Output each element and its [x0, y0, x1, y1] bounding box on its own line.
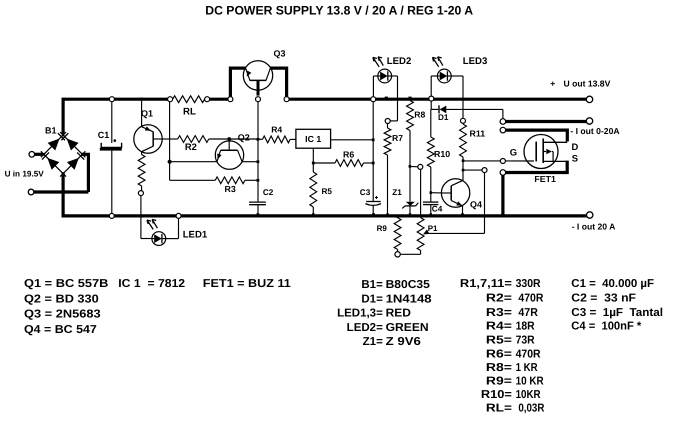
- svg-text:C1: C1: [98, 130, 110, 140]
- svg-text:- I out 20 A: - I out 20 A: [572, 222, 616, 232]
- svg-text:Q1 = BC 557B: Q1 = BC 557B: [24, 278, 108, 290]
- svg-text:C1 = 40.000 µF: C1 = 40.000 µF: [571, 278, 654, 290]
- svg-text:Q4: Q4: [470, 200, 482, 210]
- svg-text:R4: R4: [271, 124, 282, 134]
- svg-text:B1: B1: [45, 126, 57, 136]
- svg-text:73R: 73R: [516, 335, 536, 347]
- svg-text:Q1: Q1: [141, 109, 153, 119]
- svg-text:R10: R10: [434, 149, 450, 159]
- svg-text:DC POWER SUPPLY 13.8 V / 20 A: DC POWER SUPPLY 13.8 V / 20 A / REG 1-20…: [205, 4, 473, 18]
- svg-text:R2: R2: [185, 141, 197, 152]
- svg-text:R11: R11: [470, 129, 486, 139]
- svg-text:B1=: B1=: [361, 279, 383, 291]
- svg-text:Q3: Q3: [274, 48, 286, 58]
- svg-text:R6=: R6=: [486, 348, 512, 360]
- svg-text:+: +: [550, 78, 555, 88]
- svg-text:1N4148: 1N4148: [386, 293, 433, 305]
- svg-text:C3 = 1µF Tantal: C3 = 1µF Tantal: [571, 307, 663, 319]
- svg-text:R7: R7: [392, 133, 403, 143]
- svg-text:R6: R6: [343, 150, 354, 160]
- svg-text:FET1: FET1: [534, 174, 556, 184]
- svg-text:G: G: [510, 147, 517, 158]
- svg-text:IC 1: IC 1: [305, 134, 321, 144]
- svg-text:RED: RED: [386, 308, 411, 320]
- svg-text:U in 19.5V: U in 19.5V: [5, 170, 45, 179]
- svg-text:C2 = 33 nF: C2 = 33 nF: [571, 293, 636, 305]
- svg-text:S: S: [572, 153, 578, 164]
- svg-text:C2: C2: [263, 188, 274, 197]
- svg-text:LED2: LED2: [387, 56, 412, 67]
- svg-text:- I out 0-20A: - I out 0-20A: [570, 126, 619, 136]
- svg-text:470R: 470R: [518, 293, 544, 305]
- svg-text:RL=: RL=: [486, 403, 512, 415]
- svg-text:IC 1 = 7812: IC 1 = 7812: [118, 278, 185, 290]
- svg-text:Q3 = 2N5683: Q3 = 2N5683: [24, 309, 101, 321]
- svg-text:R1,7,11=: R1,7,11=: [460, 278, 512, 290]
- svg-text:U out 13.8V: U out 13.8V: [564, 78, 611, 88]
- svg-text:10KR: 10KR: [516, 389, 542, 401]
- svg-text:Z1=: Z1=: [363, 336, 383, 348]
- svg-text:R9: R9: [377, 224, 388, 233]
- svg-text:0,03R: 0,03R: [518, 403, 545, 415]
- svg-text:Q4 = BC 547: Q4 = BC 547: [24, 324, 97, 336]
- svg-text:R4=: R4=: [486, 321, 512, 333]
- svg-text:B80C35: B80C35: [386, 279, 431, 291]
- svg-text:Z 9V6: Z 9V6: [386, 336, 421, 348]
- svg-text:R10=: R10=: [481, 389, 512, 401]
- svg-text:C4 = 100nF *: C4 = 100nF *: [571, 321, 641, 333]
- svg-text:330R: 330R: [516, 278, 542, 290]
- svg-text:D1=: D1=: [361, 293, 383, 305]
- svg-text:Q2 = BD 330: Q2 = BD 330: [24, 293, 99, 305]
- svg-text:R8=: R8=: [486, 362, 512, 374]
- svg-text:Z1: Z1: [392, 188, 402, 197]
- svg-text:LED1,3=: LED1,3=: [337, 308, 383, 320]
- svg-text:R3=: R3=: [486, 307, 512, 319]
- svg-text:470R: 470R: [516, 348, 542, 360]
- svg-text:LED2=: LED2=: [347, 322, 383, 334]
- svg-text:LED3: LED3: [463, 56, 488, 67]
- svg-text:RL: RL: [183, 107, 196, 118]
- svg-text:47R: 47R: [518, 307, 538, 319]
- svg-text:C4: C4: [432, 205, 443, 214]
- svg-text:D1: D1: [438, 113, 449, 122]
- svg-text:R9=: R9=: [486, 375, 512, 387]
- svg-text:10 KR: 10 KR: [516, 375, 545, 387]
- svg-text:R2=: R2=: [486, 293, 512, 305]
- svg-text:Q2: Q2: [238, 132, 250, 142]
- svg-text:C3: C3: [360, 188, 371, 197]
- svg-text:R5: R5: [322, 187, 333, 196]
- svg-text:18R: 18R: [516, 321, 536, 333]
- svg-text:P1: P1: [428, 224, 438, 233]
- svg-text:R8: R8: [414, 110, 425, 120]
- svg-text:1 KR: 1 KR: [516, 362, 539, 374]
- svg-text:FET1 = BUZ 11: FET1 = BUZ 11: [203, 278, 292, 290]
- svg-text:R5=: R5=: [486, 335, 512, 347]
- svg-text:GREEN: GREEN: [386, 322, 429, 334]
- svg-text:R3: R3: [225, 184, 236, 194]
- svg-text:D: D: [572, 141, 579, 152]
- svg-text:LED1: LED1: [183, 230, 208, 241]
